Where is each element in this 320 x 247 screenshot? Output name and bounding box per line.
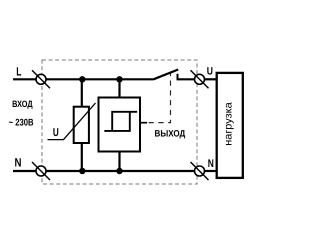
wire relay box bottom — [118, 151, 120, 171]
mechanical link dashed (relay to switch) — [147, 74, 171, 123]
svg-text:N: N — [15, 155, 22, 169]
wire varistor bottom — [81, 143, 83, 172]
svg-text:N: N — [208, 158, 214, 170]
wire switch to U terminal — [178, 78, 195, 80]
wire N terminal to load — [204, 170, 217, 172]
svg-text:ВЫХОД: ВЫХОД — [155, 129, 186, 139]
svg-text:нагрузка: нагрузка — [223, 102, 235, 146]
wire N left segment — [13, 170, 36, 172]
hysteresis symbol — [104, 112, 137, 131]
varistor diagonal with tail — [48, 103, 96, 140]
relay output tick — [141, 122, 148, 124]
terminal L — [32, 70, 50, 88]
svg-text:L: L — [16, 65, 21, 79]
switch fixed contact notch — [177, 74, 179, 81]
junction dot bottom varistor — [79, 168, 85, 174]
varistor RU body — [74, 107, 89, 143]
relay box U1 — [99, 98, 141, 152]
load box — [217, 73, 243, 178]
terminal N right — [191, 162, 209, 180]
terminal U right — [191, 70, 209, 88]
wire L main segment — [46, 78, 154, 80]
junction dot top varistor — [79, 76, 85, 82]
wire relay box top — [118, 79, 120, 98]
device dashed enclosure — [42, 60, 197, 184]
svg-text:ВХОД: ВХОД — [12, 99, 33, 109]
junction dot bottom relay — [116, 168, 122, 174]
wire N main segment — [46, 170, 195, 172]
wire L left segment — [13, 78, 36, 80]
wire U terminal to load — [204, 78, 217, 80]
switch blade — [154, 70, 179, 80]
terminal N left — [32, 162, 50, 180]
svg-text:~ 230В: ~ 230В — [9, 118, 34, 129]
svg-text:U: U — [207, 66, 213, 78]
svg-text:U: U — [53, 127, 59, 139]
junction dot top relay — [116, 76, 122, 82]
wire varistor top — [81, 79, 83, 107]
